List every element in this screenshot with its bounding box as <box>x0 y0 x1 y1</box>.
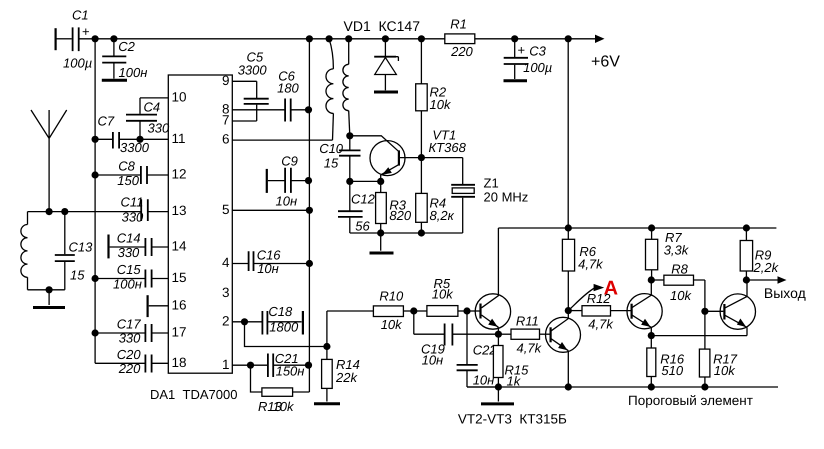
svg-text:100µ: 100µ <box>63 56 92 71</box>
pin 17 <box>172 325 187 340</box>
wire left bus <box>94 39 96 364</box>
pin 12 <box>172 167 187 182</box>
svg-text:10k: 10k <box>432 287 454 302</box>
node: R4 bottom junction <box>418 229 425 236</box>
svg-text:4,7k: 4,7k <box>588 317 614 332</box>
svg-text:56: 56 <box>355 219 370 234</box>
svg-text:330: 330 <box>119 331 141 346</box>
antenna WA1 <box>31 110 67 212</box>
pin 9 <box>222 73 230 88</box>
node: R7/R8/VT4 collector junction <box>648 276 655 283</box>
node: tank bottom junction <box>46 286 53 293</box>
node: bus/C17 junction <box>92 329 99 336</box>
node: C10/C12 junction <box>346 178 353 185</box>
capacitor C2 <box>102 39 147 80</box>
svg-text:22k: 22k <box>335 370 358 385</box>
pin 16 <box>172 297 187 312</box>
capacitor C15 <box>95 262 168 291</box>
svg-text:13: 13 <box>172 203 187 218</box>
svg-text:C1: C1 <box>72 8 89 23</box>
node: R3 bottom junction <box>377 229 384 236</box>
wire +6V drop to audio rail <box>567 39 569 228</box>
svg-text:10k: 10k <box>381 317 403 332</box>
capacitor C17 <box>95 317 168 346</box>
pin 8 <box>222 101 230 116</box>
svg-text:15: 15 <box>70 268 85 283</box>
svg-text:C11: C11 <box>121 195 144 210</box>
capacitor C12 <box>338 181 381 233</box>
svg-text:15: 15 <box>324 156 339 171</box>
svg-text:C12: C12 <box>351 192 376 207</box>
node: C21/V+ junction <box>305 362 312 369</box>
svg-text:C2: C2 <box>118 39 135 54</box>
svg-text:11: 11 <box>172 131 186 146</box>
label threshold element <box>628 393 753 408</box>
svg-text:10k: 10k <box>430 97 452 112</box>
node: pin1 junction <box>247 362 254 369</box>
svg-text:10k: 10k <box>714 363 736 378</box>
node: bus/C15 junction <box>92 275 99 282</box>
svg-text:4,7k: 4,7k <box>578 257 604 272</box>
node: R17 bottom rail junction <box>701 383 708 390</box>
ground (under VD1) <box>374 91 398 94</box>
svg-text:220: 220 <box>118 361 141 376</box>
svg-text:Выход: Выход <box>764 285 806 301</box>
ground (under R14) <box>314 402 340 405</box>
svg-text:C15: C15 <box>117 262 142 277</box>
node: V+ rail top junction <box>306 35 313 42</box>
svg-text:5: 5 <box>222 202 230 217</box>
zener diode VD1 KC147 <box>344 18 421 91</box>
node: L2a rail junction <box>326 35 333 42</box>
svg-text:1: 1 <box>222 357 230 372</box>
svg-text:1800: 1800 <box>269 320 299 335</box>
pin 14 <box>172 239 188 254</box>
svg-text:4,7k: 4,7k <box>517 341 543 356</box>
svg-text:Пороговый элемент: Пороговый элемент <box>628 393 753 408</box>
svg-text:+: + <box>518 42 526 57</box>
wire V+ vertical line <box>308 39 310 392</box>
resistor R7 <box>646 228 690 280</box>
resistor R15 <box>493 334 529 388</box>
svg-text:C7: C7 <box>98 114 115 129</box>
ground (C18 right bar) <box>302 311 304 335</box>
svg-text:3,3k: 3,3k <box>664 243 690 258</box>
node: C13 top junction <box>61 208 68 215</box>
node: R10/R5/C19 junction <box>410 307 417 314</box>
pin 5 <box>222 202 230 217</box>
resistor R8 <box>651 262 705 312</box>
resistor R10 <box>327 289 414 347</box>
resistor R5 <box>414 276 467 316</box>
svg-text:C9: C9 <box>281 154 298 169</box>
svg-text:150: 150 <box>117 173 139 188</box>
node: C6/V+ line junction <box>305 106 312 113</box>
resistor R6 <box>562 228 604 311</box>
node: +6V drop junction <box>565 35 572 42</box>
inductor L2a (left coil) <box>326 39 333 140</box>
node: bus/C8 junction <box>92 171 99 178</box>
svg-text:R11: R11 <box>516 314 539 329</box>
svg-text:C20: C20 <box>117 347 142 362</box>
svg-text:10k: 10k <box>273 399 295 414</box>
resistor R9 <box>740 228 779 280</box>
svg-text:18: 18 <box>172 355 187 370</box>
svg-text:3: 3 <box>222 285 230 300</box>
svg-text:9: 9 <box>222 73 230 88</box>
svg-text:1k: 1k <box>507 374 522 389</box>
svg-text:VT2-VT3 КТ315Б: VT2-VT3 КТ315Б <box>458 412 567 427</box>
wire bottom rail <box>467 386 778 388</box>
capacitor C6 <box>232 69 308 122</box>
pin 4 <box>222 255 230 270</box>
svg-text:8,2к: 8,2к <box>430 208 455 223</box>
svg-text:R1: R1 <box>450 17 467 32</box>
capacitor C10 <box>319 136 360 182</box>
svg-text:2: 2 <box>222 313 230 328</box>
resistor R13 <box>251 365 310 414</box>
op-amp U1: IC DA1 TDA7000 body <box>150 75 237 402</box>
wire pin 6 to coil <box>232 139 332 141</box>
wire pin2 to R14 node <box>245 322 327 347</box>
svg-text:C4: C4 <box>144 100 161 115</box>
resistor R14 <box>322 347 360 402</box>
svg-text:12: 12 <box>172 167 187 182</box>
svg-text:4: 4 <box>222 255 230 270</box>
transistor VT4 <box>627 280 662 336</box>
ground (under tank) <box>33 290 65 308</box>
node: L2b rail junction <box>345 35 352 42</box>
capacitor C4 <box>126 98 170 139</box>
node: C16/V+ junction <box>306 260 313 267</box>
svg-text:2,2k: 2,2k <box>753 260 780 275</box>
svg-text:C8: C8 <box>118 159 135 174</box>
svg-text:10н: 10н <box>257 261 279 276</box>
resistor R2 <box>416 39 452 158</box>
wire VT1 emitter row <box>350 180 381 182</box>
node: C1/left bus junction <box>92 35 99 42</box>
svg-text:100н: 100н <box>113 276 142 291</box>
svg-text:10k: 10k <box>670 288 692 303</box>
svg-text:6: 6 <box>222 132 230 147</box>
node: R9/VT5 collector junction <box>743 276 750 283</box>
svg-text:3300: 3300 <box>120 140 150 155</box>
crystal Z1 20 MHz <box>421 158 528 233</box>
svg-text:510: 510 <box>661 363 683 378</box>
node: R2 rail junction <box>418 35 425 42</box>
node: R7 top rail junction <box>648 224 655 231</box>
capacitor C19 <box>414 311 499 368</box>
resistor R3 <box>376 181 412 233</box>
svg-text:R10: R10 <box>379 289 404 304</box>
svg-text:180: 180 <box>277 80 299 95</box>
node: C3 rail junction <box>511 35 518 42</box>
svg-text:220: 220 <box>450 44 473 59</box>
svg-text:3300: 3300 <box>238 63 268 78</box>
ground (under C2) <box>102 79 127 82</box>
resistor R17 <box>699 311 737 387</box>
pin 15 <box>172 270 187 285</box>
capacitor C14 <box>109 231 169 260</box>
node: pin2 junction <box>241 318 248 325</box>
node: pin5/V+ junction <box>306 207 313 214</box>
svg-text:16: 16 <box>172 297 187 312</box>
node: VT2 base/C22 junction <box>463 307 470 314</box>
svg-text:КТ368: КТ368 <box>429 140 467 155</box>
capacitor C5 (pins 9-7) <box>232 50 268 122</box>
capacitor C20 <box>95 347 168 376</box>
node: antenna/tank junction <box>46 208 53 215</box>
svg-text:14: 14 <box>172 239 188 254</box>
capacitor C7 <box>95 114 168 155</box>
node: VT4 emitter junction <box>648 332 655 339</box>
svg-text:820: 820 <box>389 208 411 223</box>
+6V arrow terminal <box>591 35 620 71</box>
resistor R12 <box>568 291 631 331</box>
svg-text:+6V: +6V <box>591 54 620 71</box>
svg-text:C3: C3 <box>529 43 546 58</box>
transistor VT1 KT368 <box>350 128 467 182</box>
capacitor C16 (pin 4) <box>232 247 309 276</box>
svg-text:Z1: Z1 <box>484 176 499 191</box>
svg-text:+: + <box>82 24 90 39</box>
svg-text:330: 330 <box>118 245 140 260</box>
capacitor C13 <box>55 212 93 290</box>
svg-text:R12: R12 <box>587 291 612 306</box>
node: R10/R14 junction <box>323 343 330 350</box>
capacitor C18 (pin 2) <box>232 304 301 335</box>
capacitor C21 (pin 1) <box>232 351 308 379</box>
node A arrow <box>568 278 618 311</box>
ground (under C3) <box>504 79 528 82</box>
wire audio top rail <box>498 227 776 229</box>
label VT2-VT3 <box>458 412 567 427</box>
svg-text:17: 17 <box>172 325 187 340</box>
pin 11 <box>172 131 186 146</box>
svg-text:100µ: 100µ <box>523 60 552 75</box>
pin 2 <box>222 313 230 328</box>
capacitor C8 <box>95 159 168 188</box>
svg-text:20 MHz: 20 MHz <box>484 190 529 205</box>
wire pin 5 <box>232 209 309 211</box>
svg-text:330: 330 <box>148 121 170 136</box>
wire top +6V rail <box>79 38 598 40</box>
svg-text:330: 330 <box>122 209 144 224</box>
resistor R16 <box>647 336 685 387</box>
transistor VT5 <box>651 280 755 336</box>
node: C2 junction <box>110 35 117 42</box>
node: VT5 base/R17 junction <box>701 308 708 315</box>
node: VT3 emitter rail junction <box>565 383 572 390</box>
node: bus/C7 junction <box>92 136 99 143</box>
capacitor C22 <box>457 311 499 388</box>
svg-text:100н: 100н <box>119 65 148 80</box>
pin 7 <box>222 113 230 128</box>
node: C9/V+ junction <box>305 177 312 184</box>
node: R9 top rail junction <box>743 224 750 231</box>
svg-text:150н: 150н <box>276 364 305 379</box>
svg-text:10: 10 <box>172 90 187 105</box>
capacitor C11 <box>121 195 169 225</box>
wire bottom line R3-R4-Z1 <box>381 232 463 234</box>
node: R15 bottom junction <box>495 383 502 390</box>
pin 6 <box>222 132 230 147</box>
ground (under R3) <box>370 233 394 253</box>
transistor VT3 <box>546 311 581 387</box>
pin 16 ground stub <box>148 295 169 317</box>
svg-text:C10: C10 <box>319 141 344 156</box>
inductor L2b (right coil) <box>343 39 350 136</box>
resistor R4 <box>416 158 455 233</box>
wire tank to pin 13 <box>28 211 142 213</box>
pin 10 <box>172 90 187 105</box>
node: pin11/C4 junction <box>136 136 143 143</box>
svg-text:10н: 10н <box>276 194 298 209</box>
ground (under R15) <box>481 387 514 404</box>
svg-text:10н: 10н <box>473 373 495 388</box>
resistor R1 <box>445 17 475 60</box>
node: VT1 emitter junction <box>377 178 384 185</box>
node: R16 bottom rail junction <box>648 383 655 390</box>
svg-text:15: 15 <box>172 270 187 285</box>
transistor VT2 <box>467 228 511 334</box>
pin 1 <box>222 357 230 372</box>
pin 18 <box>172 355 187 370</box>
svg-text:7: 7 <box>222 113 230 128</box>
capacitor C1 <box>56 8 93 71</box>
svg-text:VD1 КС147: VD1 КС147 <box>344 18 421 34</box>
svg-text:10н: 10н <box>422 353 444 368</box>
capacitor C9 <box>267 154 309 209</box>
svg-text:C17: C17 <box>117 317 142 332</box>
pin 3 <box>222 285 230 300</box>
inductor L1 <box>21 212 65 290</box>
svg-text:R8: R8 <box>671 262 688 277</box>
svg-text:C13: C13 <box>69 240 94 255</box>
node: VT2 emitter junction <box>495 331 502 338</box>
node: L2b/C10/VT1 collector junction <box>346 132 353 139</box>
node: VD1 rail junction <box>382 35 389 42</box>
svg-text:C18: C18 <box>268 304 293 319</box>
svg-text:C14: C14 <box>117 231 141 246</box>
svg-text:DA1 TDA7000: DA1 TDA7000 <box>150 387 237 402</box>
node: VT1 base junction <box>418 154 425 161</box>
node: R6 top rail junction <box>565 224 572 231</box>
capacitor C3 <box>504 39 553 79</box>
resistor R11 <box>498 314 550 356</box>
node: VT3 collector junction <box>565 307 572 314</box>
output arrow Выход <box>746 276 805 301</box>
pin 13 <box>172 203 187 218</box>
